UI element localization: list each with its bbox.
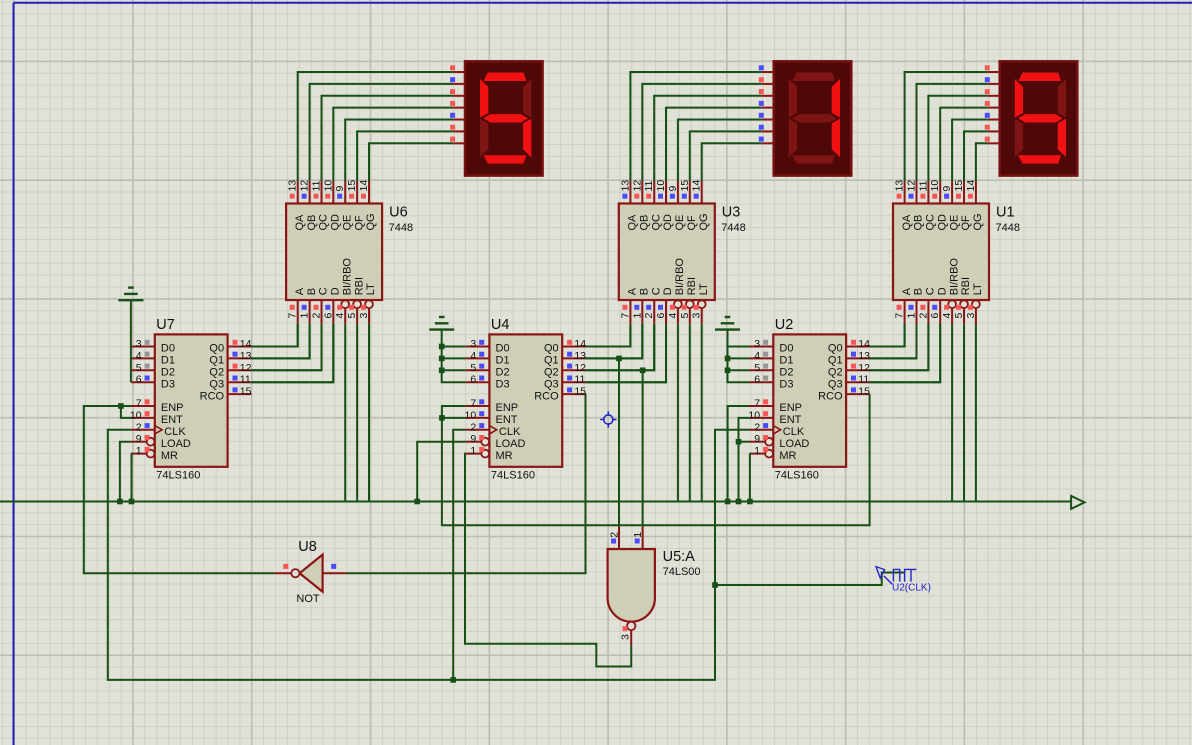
wire xyxy=(870,324,905,347)
wire xyxy=(442,346,466,348)
svg-text:QB: QB xyxy=(913,215,925,231)
wire xyxy=(130,454,133,502)
svg-text:ENP: ENP xyxy=(779,402,802,414)
wire xyxy=(120,442,131,502)
svg-text:D1: D1 xyxy=(496,355,510,367)
counter U4 74LS160 xyxy=(489,334,562,466)
svg-text:2: 2 xyxy=(643,313,655,319)
wire xyxy=(586,324,631,347)
wire xyxy=(586,324,655,370)
7-seg display DS1 xyxy=(465,61,543,175)
wire xyxy=(928,96,987,181)
U1 pin 4 (BI/RBO) xyxy=(948,300,956,308)
junction xyxy=(747,499,753,505)
svg-text:13: 13 xyxy=(574,350,586,362)
U4 pin 9 (LOAD) xyxy=(481,438,489,446)
wire xyxy=(251,324,309,359)
junction xyxy=(640,368,646,374)
wire xyxy=(630,72,761,181)
wire xyxy=(121,406,131,418)
svg-text:QE: QE xyxy=(341,215,353,231)
U4 pin 3 (D0) xyxy=(466,346,490,348)
U1 pin 10 (QD) xyxy=(939,181,941,204)
U5 pin 2 stub xyxy=(618,527,620,549)
U5 pin 3 output stub xyxy=(630,630,632,646)
U6 pin 9 (QE) xyxy=(344,181,346,204)
svg-text:Q0: Q0 xyxy=(544,343,559,355)
wire xyxy=(870,324,941,382)
wire xyxy=(130,300,132,382)
svg-text:12: 12 xyxy=(574,362,586,374)
wire xyxy=(952,120,988,182)
svg-text:5: 5 xyxy=(754,362,760,374)
U6 pin 15 (QF) xyxy=(356,181,358,204)
svg-text:4: 4 xyxy=(754,350,760,362)
junction xyxy=(725,368,731,374)
U1 pin 14 (QG) xyxy=(975,181,977,204)
svg-text:C: C xyxy=(925,287,937,295)
wire xyxy=(975,324,977,502)
U2 pin 2 (CLK) xyxy=(750,429,774,431)
svg-text:74LS00: 74LS00 xyxy=(663,566,701,578)
svg-text:MR: MR xyxy=(779,450,796,462)
wire xyxy=(368,324,370,502)
display DS2 pin seg e xyxy=(762,119,774,121)
U3 pin 4 (BI/RBO) xyxy=(674,300,682,308)
wire xyxy=(310,84,454,181)
U1 pin 11 (QC) xyxy=(927,181,929,204)
wire xyxy=(728,346,750,348)
wire xyxy=(951,324,953,502)
svg-text:RCO: RCO xyxy=(200,390,225,402)
U3 pin 7 (A) xyxy=(629,300,631,324)
U3 pin 12 (QB) xyxy=(641,181,643,204)
svg-text:11: 11 xyxy=(240,374,251,386)
svg-text:10: 10 xyxy=(655,180,667,192)
counter U7 74LS160 xyxy=(155,334,228,466)
svg-text:15: 15 xyxy=(574,386,586,398)
svg-text:2: 2 xyxy=(608,532,620,538)
U6 pin 3 (LT) xyxy=(365,300,373,308)
wire xyxy=(701,324,703,502)
U1 pin 2 (C) xyxy=(927,300,929,324)
svg-text:14: 14 xyxy=(240,338,252,350)
svg-text:1: 1 xyxy=(632,532,644,538)
ground xyxy=(725,316,731,318)
svg-text:D: D xyxy=(330,287,342,295)
svg-text:10: 10 xyxy=(322,180,334,192)
wire xyxy=(870,324,917,359)
U1 pin 5 (RBI) xyxy=(960,300,968,308)
display DS3 pin seg f xyxy=(988,130,1000,132)
wire xyxy=(84,406,274,573)
svg-text:QG: QG xyxy=(972,213,984,230)
svg-text:LOAD: LOAD xyxy=(496,438,526,450)
wire xyxy=(586,324,631,347)
svg-text:4: 4 xyxy=(334,313,346,319)
svg-text:10: 10 xyxy=(748,409,760,421)
svg-text:10: 10 xyxy=(465,409,477,421)
U4 pin 12 (Q2) xyxy=(562,369,586,371)
svg-text:3: 3 xyxy=(620,634,632,640)
U7 pin 5 (D2) xyxy=(131,369,155,371)
svg-text:9: 9 xyxy=(470,433,476,445)
junction xyxy=(725,499,731,505)
U8 output stub xyxy=(274,572,291,574)
svg-text:RBI: RBI xyxy=(960,277,972,295)
svg-text:QA: QA xyxy=(901,214,913,231)
svg-text:10: 10 xyxy=(929,180,941,192)
wire xyxy=(963,324,965,502)
display DS1 pin seg b xyxy=(453,83,465,85)
wire xyxy=(251,324,309,359)
svg-text:CLK: CLK xyxy=(783,426,805,438)
svg-text:QF: QF xyxy=(960,215,972,231)
display DS1 pin seg a xyxy=(453,71,465,73)
wire xyxy=(344,324,346,502)
U2 pin 15 (RCO) xyxy=(846,393,870,395)
svg-text:LT: LT xyxy=(365,283,377,295)
svg-text:7448: 7448 xyxy=(389,222,413,234)
svg-text:11: 11 xyxy=(643,180,655,191)
wire xyxy=(702,143,762,181)
wire xyxy=(0,501,1071,503)
wire xyxy=(905,72,988,181)
wire xyxy=(728,357,750,359)
wire xyxy=(642,370,644,526)
wire xyxy=(251,324,321,370)
svg-text:MR: MR xyxy=(161,450,178,462)
svg-text:D: D xyxy=(936,287,948,295)
svg-text:5: 5 xyxy=(679,313,691,319)
svg-text:A: A xyxy=(294,287,306,295)
svg-text:Q3: Q3 xyxy=(209,378,224,390)
U7 pin 15 (RCO) xyxy=(228,393,252,395)
U4 pin 7 (ENP) xyxy=(466,405,490,407)
U1 pin 6 (D) xyxy=(939,300,941,324)
wire xyxy=(333,108,453,181)
svg-text:LT: LT xyxy=(698,283,710,295)
junction xyxy=(439,415,445,421)
svg-text:6: 6 xyxy=(136,374,142,386)
junction xyxy=(439,368,445,374)
U2 pin 1 (MR) xyxy=(765,450,773,458)
U3 pin 14 (QG) xyxy=(701,181,703,204)
U4 pin 6 (D3) xyxy=(466,381,490,383)
U6 pin 5 (RBI) xyxy=(353,300,361,308)
svg-text:1: 1 xyxy=(906,313,918,319)
decoder U3 7448 xyxy=(619,204,715,301)
svg-text:4: 4 xyxy=(470,350,476,362)
wire xyxy=(346,394,585,573)
wire xyxy=(739,418,750,502)
junction xyxy=(129,499,135,505)
U6 pin 13 (QA) xyxy=(297,181,299,204)
svg-text:QB: QB xyxy=(306,215,318,231)
svg-text:11: 11 xyxy=(311,180,323,191)
display DS3 pin seg c xyxy=(988,95,1000,97)
display DS3 pin seg g xyxy=(988,142,1000,144)
display DS1 pin seg g xyxy=(453,142,465,144)
svg-text:LOAD: LOAD xyxy=(779,438,809,450)
junction xyxy=(450,677,456,683)
display DS3 pin seg a xyxy=(988,71,1000,73)
U4 pin 1 (MR) xyxy=(481,450,489,458)
svg-text:13: 13 xyxy=(240,350,252,362)
svg-text:9: 9 xyxy=(136,433,142,445)
U3 pin 3 (LT) xyxy=(698,300,706,308)
U6 pin 1 (B) xyxy=(309,300,311,324)
svg-text:BI/RBO: BI/RBO xyxy=(948,258,960,296)
svg-text:RBI: RBI xyxy=(353,277,365,295)
U6 pin 10 (QD) xyxy=(332,181,334,204)
svg-text:7: 7 xyxy=(894,313,906,319)
svg-text:11: 11 xyxy=(858,374,869,386)
svg-text:12: 12 xyxy=(240,362,252,374)
svg-text:D0: D0 xyxy=(779,343,793,355)
svg-text:D1: D1 xyxy=(161,355,175,367)
svg-text:D1: D1 xyxy=(779,355,793,367)
svg-text:3: 3 xyxy=(965,313,977,319)
wire xyxy=(728,330,750,383)
svg-text:C: C xyxy=(318,287,330,295)
svg-text:12: 12 xyxy=(299,180,311,192)
display DS3 pin seg e xyxy=(988,119,1000,121)
svg-text:A: A xyxy=(901,287,913,295)
U3 pin 2 (C) xyxy=(653,300,655,324)
junction xyxy=(725,356,731,362)
U3 pin 10 (QD) xyxy=(665,181,667,204)
svg-text:U7: U7 xyxy=(156,317,175,333)
U4 pin 15 (RCO) xyxy=(562,393,586,395)
U7 pin 10 (ENT) xyxy=(131,417,155,419)
svg-text:U8: U8 xyxy=(298,539,317,555)
junction xyxy=(414,499,420,505)
U7 pin 6 (D3) xyxy=(131,381,155,383)
svg-text:74LS160: 74LS160 xyxy=(156,470,200,482)
ground xyxy=(128,286,134,288)
display DS3 pin seg b xyxy=(988,83,1000,85)
U7 pin 14 (Q0) xyxy=(228,346,252,348)
svg-text:11: 11 xyxy=(574,374,585,386)
wire xyxy=(442,357,466,359)
U4 pin 10 (ENT) xyxy=(466,417,490,419)
wire xyxy=(251,324,333,382)
svg-text:QD: QD xyxy=(330,214,342,231)
svg-text:U2(CLK): U2(CLK) xyxy=(892,583,931,594)
wire xyxy=(678,120,762,182)
U6 pin 11 (QC) xyxy=(321,181,323,204)
U3 pin 13 (QA) xyxy=(629,181,631,204)
wire xyxy=(108,430,750,680)
U6 pin 12 (QB) xyxy=(309,181,311,204)
svg-text:4: 4 xyxy=(667,313,679,319)
U4 pin 4 (D1) xyxy=(466,357,490,359)
svg-text:1: 1 xyxy=(136,445,142,457)
svg-text:D3: D3 xyxy=(779,378,793,390)
wire xyxy=(356,324,358,502)
sheet border xyxy=(13,3,15,745)
NAND gate U5:A 74LS00 xyxy=(608,549,655,622)
U2 pin 13 (Q1) xyxy=(846,357,870,359)
ground xyxy=(439,316,445,318)
U5 pin 1 stub xyxy=(642,527,644,549)
svg-text:B: B xyxy=(913,288,925,295)
svg-text:QA: QA xyxy=(627,214,639,231)
svg-text:D: D xyxy=(662,287,674,295)
U2 pin 4 (D1) xyxy=(750,357,774,359)
wire xyxy=(417,442,465,502)
svg-text:3: 3 xyxy=(136,338,142,350)
U2 pin 6 (D3) xyxy=(750,381,774,383)
svg-text:CLK: CLK xyxy=(499,426,521,438)
svg-text:U4: U4 xyxy=(491,317,510,333)
svg-text:9: 9 xyxy=(334,186,346,192)
wire xyxy=(586,324,667,382)
wire xyxy=(870,324,941,382)
wire xyxy=(453,430,465,680)
junction xyxy=(736,439,742,445)
svg-text:QA: QA xyxy=(294,214,306,231)
U6 pin 14 (QG) xyxy=(368,181,370,204)
svg-text:U5:A: U5:A xyxy=(663,549,696,565)
U6 pin 7 (A) xyxy=(297,300,299,324)
svg-text:C: C xyxy=(650,287,662,295)
wire xyxy=(586,324,643,359)
junction xyxy=(736,499,742,505)
svg-text:13: 13 xyxy=(858,350,870,362)
U8 input stub xyxy=(323,572,347,574)
svg-text:QD: QD xyxy=(936,214,948,231)
junction xyxy=(439,356,445,362)
display DS1 pin seg c xyxy=(453,95,465,97)
wire xyxy=(369,143,453,181)
wire xyxy=(677,324,679,502)
wire xyxy=(964,131,988,181)
wire xyxy=(251,324,298,347)
svg-text:15: 15 xyxy=(953,180,965,192)
U1 pin 13 (QA) xyxy=(904,181,906,204)
svg-text:D3: D3 xyxy=(161,378,175,390)
display DS2 pin seg f xyxy=(762,130,774,132)
svg-text:7448: 7448 xyxy=(996,222,1020,234)
wire xyxy=(689,324,691,502)
svg-text:Q0: Q0 xyxy=(209,343,224,355)
svg-text:QF: QF xyxy=(353,215,365,231)
svg-text:9: 9 xyxy=(667,186,679,192)
svg-text:RBI: RBI xyxy=(686,277,698,295)
svg-text:RCO: RCO xyxy=(818,390,843,402)
svg-text:6: 6 xyxy=(470,374,476,386)
display DS2 pin seg b xyxy=(762,83,774,85)
svg-text:1: 1 xyxy=(631,313,643,319)
svg-text:6: 6 xyxy=(655,313,667,319)
U7 pin 7 (ENP) xyxy=(131,405,155,407)
svg-text:6: 6 xyxy=(322,313,334,319)
wire xyxy=(917,84,988,181)
svg-text:D2: D2 xyxy=(779,367,793,379)
svg-text:7: 7 xyxy=(619,313,631,319)
svg-text:U3: U3 xyxy=(722,204,741,220)
U1 pin 15 (QF) xyxy=(963,181,965,204)
svg-text:13: 13 xyxy=(894,180,906,192)
svg-text:9: 9 xyxy=(754,433,760,445)
junction xyxy=(117,499,123,505)
wire xyxy=(870,324,929,370)
wire xyxy=(870,324,917,359)
wire xyxy=(322,96,454,181)
svg-text:7: 7 xyxy=(470,398,476,410)
svg-text:RCO: RCO xyxy=(534,390,559,402)
svg-text:5: 5 xyxy=(136,362,142,374)
U1 pin 9 (QE) xyxy=(951,181,953,204)
wire xyxy=(586,324,643,359)
svg-text:D2: D2 xyxy=(161,367,175,379)
wire xyxy=(690,131,762,181)
wire xyxy=(728,406,750,502)
junction xyxy=(712,582,718,588)
NOT gate U8 xyxy=(300,555,323,592)
svg-text:3: 3 xyxy=(358,313,370,319)
U4 pin 5 (D2) xyxy=(466,369,490,371)
wire xyxy=(298,72,453,181)
U2 pin 14 (Q0) xyxy=(846,346,870,348)
svg-text:6: 6 xyxy=(929,313,941,319)
svg-text:MR: MR xyxy=(496,450,513,462)
wire xyxy=(666,108,762,181)
svg-text:B: B xyxy=(306,288,318,295)
U3 pin 5 (RBI) xyxy=(686,300,694,308)
wire xyxy=(357,131,453,181)
svg-text:13: 13 xyxy=(287,180,299,192)
svg-text:QG: QG xyxy=(698,213,710,230)
svg-text:Q2: Q2 xyxy=(544,367,559,379)
display DS2 pin seg g xyxy=(762,142,774,144)
U4 pin 11 (Q3) xyxy=(562,381,586,383)
U6 pin 4 (BI/RBO) xyxy=(341,300,349,308)
decoder U6 7448 xyxy=(286,204,382,301)
U7 pin 9 (LOAD) xyxy=(147,438,155,446)
U1 pin 1 (B) xyxy=(916,300,918,324)
display DS3 pin seg d xyxy=(988,107,1000,109)
svg-text:4: 4 xyxy=(941,313,953,319)
svg-text:ENT: ENT xyxy=(779,414,801,426)
svg-text:5: 5 xyxy=(346,313,358,319)
display DS1 pin seg f xyxy=(453,130,465,132)
U7 pin 1 (MR) xyxy=(147,450,155,458)
svg-text:2: 2 xyxy=(754,421,760,433)
clock generator U2(CLK) xyxy=(884,576,893,585)
svg-text:Q1: Q1 xyxy=(828,355,843,367)
svg-text:4: 4 xyxy=(136,350,142,362)
svg-text:7: 7 xyxy=(754,398,760,410)
U4 pin 14 (Q0) xyxy=(562,346,586,348)
wire xyxy=(618,358,620,526)
svg-text:13: 13 xyxy=(619,180,631,192)
U2 pin 3 (D0) xyxy=(750,346,774,348)
svg-text:15: 15 xyxy=(346,180,358,192)
junction xyxy=(439,344,445,350)
wire xyxy=(586,324,655,370)
svg-text:14: 14 xyxy=(691,180,703,192)
wire xyxy=(442,417,466,419)
U2 pin 12 (Q2) xyxy=(846,369,870,371)
svg-text:BI/RBO: BI/RBO xyxy=(674,258,686,296)
svg-text:LT: LT xyxy=(972,283,984,295)
wire xyxy=(345,120,453,182)
U6 pin 6 (D) xyxy=(332,300,334,324)
wire xyxy=(715,573,906,586)
